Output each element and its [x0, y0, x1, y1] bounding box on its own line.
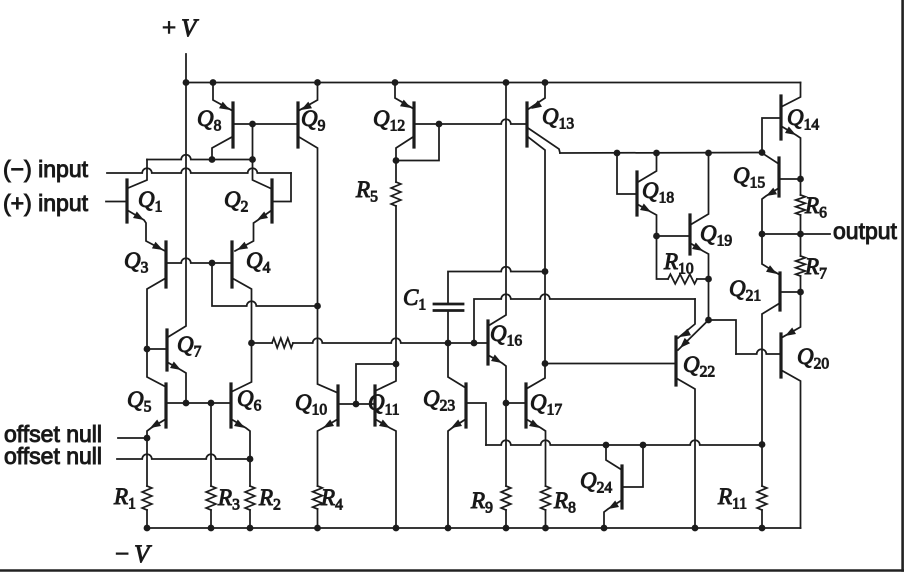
node -V rail junction at Q11 emitter: [393, 525, 400, 532]
node Q8 collector junction: [209, 156, 216, 163]
label Q5: [127, 387, 152, 416]
wire Q10 base to Q11 base: [338, 403, 375, 405]
label Q13: [542, 104, 574, 133]
wire Q8 base to Q9 base: [233, 123, 298, 125]
label R11: [717, 484, 747, 513]
node Q24 base junction: [640, 442, 647, 449]
node offset null lower junction: [247, 456, 254, 463]
wire Q21 emitter from output node: [762, 234, 780, 275]
transistor Q11: [373, 386, 376, 425]
wire Q20 collector to -V rail corner: [781, 370, 801, 528]
wire R5 bottom to Q11 collector node: [395, 206, 397, 364]
wire Q7 collector riser (+V to Q7): [168, 83, 186, 338]
wire Q1 collector riser: [128, 160, 147, 189]
node Q4/Q6 collector to second stage: [248, 340, 255, 347]
wire Q12 collector: [396, 137, 413, 161]
wire Q11 collector: [375, 364, 396, 391]
resistor R10: [668, 274, 709, 284]
transistor Q8: [231, 103, 234, 147]
wire Q14 base lead: [762, 118, 781, 153]
arrow Q6 emitter: [234, 420, 245, 429]
wire Q24 base tie: [622, 445, 643, 487]
wire Q4 collector down to Q6 collector: [231, 278, 252, 392]
node -V rail junction at R8: [542, 525, 549, 532]
transistor Q1: [125, 180, 128, 222]
transistor Q16: [486, 321, 489, 364]
transistor Q14: [779, 96, 782, 139]
wire Q2 emitter to Q4 emitter: [235, 210, 272, 251]
wire (+) input to Q1 base: [106, 201, 127, 203]
node Q7 emitter junction: [183, 400, 190, 407]
arrow Q18 emitter: [640, 204, 651, 213]
node Q21 base / R7 junction: [797, 289, 804, 296]
transistor Q10: [336, 386, 339, 425]
node Q14 base / Q15 collector junction: [759, 149, 766, 156]
transistor Q23: [464, 384, 467, 427]
wire Q1 emitter to Q3 emitter: [127, 210, 165, 251]
transistor Q6: [229, 384, 232, 427]
label Q6: [237, 386, 262, 415]
label Q3: [124, 248, 149, 277]
wire R5 top lead: [395, 161, 397, 183]
node Q3-Q4 base tap: [209, 260, 216, 267]
label R8: [553, 488, 576, 517]
capacitor C1 plates: [434, 304, 463, 311]
node Q7 base junction: [144, 346, 151, 353]
resistor R2: [245, 486, 255, 528]
wire Q21 base lead: [780, 291, 801, 293]
label Q24: [580, 468, 612, 497]
arrow Q19 emitter: [692, 243, 703, 252]
wire Q12 diode tie: [396, 124, 439, 161]
wire Q17 emitter lead: [526, 419, 546, 486]
node output / R6-R7 junction: [797, 231, 804, 238]
node -V rail junction at R4: [314, 525, 321, 532]
label Q9: [301, 106, 326, 135]
label R1: [113, 484, 136, 513]
transistor Q4: [230, 242, 233, 287]
node Q15 base / R6 junction: [797, 176, 804, 183]
label Q16: [490, 321, 522, 350]
arrow Q15 emitter (PNP, into bar): [766, 188, 777, 196]
node -V rail junction at R2: [247, 525, 254, 532]
wire Q19 emitter node down: [708, 279, 710, 320]
transistor Q13: [525, 103, 528, 146]
wire Q7 emitter to Q5-Q6 base line: [167, 362, 186, 403]
label R3: [217, 485, 240, 514]
svg-text:output: output: [833, 218, 898, 244]
arrow Q7 emitter: [170, 362, 181, 371]
wire output line: [762, 233, 830, 235]
wire Q24 emitter to -V rail: [604, 500, 622, 528]
wire Q18 collector: [638, 153, 657, 182]
wire Q16 base node to Q22 emitter 1: [474, 294, 695, 343]
label Q15: [733, 163, 765, 192]
label (+) input: [3, 190, 89, 216]
node output / Q15 emitter junction: [759, 231, 766, 238]
node riser junction on Q16 base line: [471, 340, 478, 347]
transistor Q17: [524, 384, 527, 427]
resistor R9: [501, 486, 511, 528]
node Q12 collector / R5 junction: [393, 157, 400, 164]
label Q20: [797, 344, 829, 373]
label Q4: [246, 248, 271, 277]
label Q8: [197, 106, 222, 135]
node Q9/Q10 collector with Q3-Q4 base line: [314, 303, 321, 310]
node R11 top junction: [759, 441, 766, 448]
wire R3 feed: [210, 403, 212, 486]
transistor Q3: [164, 242, 167, 287]
node Q22 emitter 2 / Q20 base junction: [705, 317, 712, 324]
node Q18 base feed junction: [614, 150, 621, 157]
wire Q5 emitter lead: [147, 419, 166, 486]
wire Q6 emitter lead: [231, 419, 250, 486]
label +V: [162, 15, 199, 42]
wire Q23 base to protection line: [466, 403, 486, 445]
node offset null upper junction: [144, 435, 151, 442]
label offset null (upper): [4, 421, 102, 447]
border right edge: [901, 0, 904, 571]
label output: [833, 218, 898, 244]
resistor R11: [757, 445, 767, 529]
wire top +V rail: [186, 82, 801, 84]
resistor R3: [206, 486, 216, 528]
wire Q15 base lead: [779, 178, 801, 180]
wire Q9 collector down to Q10 collector: [299, 137, 338, 393]
label Q22: [683, 352, 715, 381]
wire Q19 emitter lead: [690, 243, 709, 279]
svg-text:offset null: offset null: [4, 443, 102, 469]
node Q2 collector riser junction: [249, 156, 256, 163]
node Q8 emitter rail junction: [210, 79, 217, 86]
arrow Q1 emitter: [133, 212, 144, 221]
label offset null (lower): [4, 443, 102, 469]
wire Q22 collector to -V rail: [676, 378, 695, 528]
node Q18 emitter / Q19 base junction: [653, 233, 660, 240]
label (-) input: [3, 156, 89, 182]
arrow Q14 emitter: [785, 127, 796, 136]
node Q10-Q11 base tap: [353, 401, 360, 408]
node Q16 collector rail junction: [503, 79, 510, 86]
node Q19 collector junction: [705, 150, 712, 157]
node -V rail junction at R9: [503, 525, 510, 532]
capacitor C1 bottom lead: [447, 311, 449, 344]
wire Q3-Q4 base tap down to Q9/Q10 collectors: [212, 263, 318, 306]
arrow Q8 emitter (PNP, into bar): [219, 102, 230, 110]
wire Q13 collector B down to Q17 collector: [526, 137, 545, 389]
arrow Q17 emitter: [529, 420, 540, 429]
border bottom edge: [0, 569, 904, 572]
wire Q11 emitter to -V rail: [375, 419, 396, 528]
wire Q15 emitter lead: [762, 188, 779, 234]
arrow Q16 emitter: [491, 355, 502, 364]
wire Q19 collector: [690, 153, 709, 225]
arrow Q20 emitter (PNP, into bar): [785, 328, 796, 337]
node Q18 collector junction: [653, 150, 660, 157]
node -V rail junction at R11: [759, 525, 766, 532]
node Q11 collector / R5 junction: [393, 361, 400, 368]
label R6: [804, 193, 827, 222]
resistor R7: [796, 234, 806, 292]
node Q17 base junction: [503, 400, 510, 407]
arrow Q2 emitter: [257, 212, 268, 221]
capacitor C1 top lead: [448, 267, 545, 303]
wire Q21 collector down to R11: [762, 303, 780, 445]
node -V rail junction at R3: [208, 525, 215, 532]
resistor R5: [391, 182, 401, 206]
node C1 bottom junction: [445, 340, 452, 347]
node -V rail junction at R1: [144, 525, 151, 532]
arrow Q13 emitter (PNP, into bar): [531, 100, 542, 109]
wire Q5 base to Q6 base: [166, 402, 231, 404]
node R10 / Q19 emitter junction: [705, 276, 712, 283]
arrow Q23 collector lead: [451, 420, 462, 429]
label Q19: [700, 221, 732, 250]
node Q12 emitter rail junction: [392, 79, 399, 86]
label Q1: [138, 187, 162, 216]
svg-text:− V: − V: [115, 541, 152, 568]
transistor Q20: [779, 334, 782, 377]
node Q22 base line junction: [542, 360, 549, 367]
transistor Q19: [688, 215, 691, 254]
wire Q18 base feed: [617, 153, 637, 194]
label R4: [320, 485, 343, 514]
wire Q2 collector riser from Q8 node: [253, 124, 273, 189]
wire Q14 emitter lead: [781, 126, 801, 179]
label R10: [663, 249, 694, 278]
node Q24 collector junction: [603, 442, 610, 449]
wire Q10-Q11 base tie to Q11 collector: [356, 364, 396, 404]
svg-text:(+) input: (+) input: [3, 190, 89, 216]
power rail +V supply lead: [185, 54, 187, 83]
label Q21: [729, 276, 761, 305]
resistor R8: [541, 486, 551, 528]
label -V: [115, 541, 152, 568]
arrow Q5 emitter: [150, 420, 161, 429]
label R7: [804, 254, 827, 283]
wire Q3 base to Q4 base: [166, 258, 232, 263]
transistor Q21: [778, 273, 781, 310]
wire Q15 collector: [762, 153, 779, 164]
node Q12 base-collector tie: [436, 121, 443, 128]
wire Q8 emitter from +V rail: [213, 83, 233, 112]
arrow Q10 emitter: [323, 420, 334, 429]
wire Q13 emitter from +V rail: [527, 83, 545, 111]
wire Q20 emitter lead: [781, 292, 801, 338]
label R5: [355, 177, 378, 206]
arrow Q9 emitter (PNP, into bar): [301, 102, 312, 110]
node +V rail / Q7 collector riser junction: [183, 79, 190, 86]
wire Q23 collector to -V rail: [448, 419, 466, 528]
wire Q20 base path: [709, 320, 782, 354]
label Q17: [530, 390, 562, 419]
wire Q7 base from Q3 collector: [147, 348, 167, 350]
wire Q16 collector to +V rail: [488, 83, 506, 327]
node -V rail junction at Q24 emitter: [601, 525, 608, 532]
label Q11: [368, 390, 400, 419]
wire Q12 base to Q13 base: [414, 119, 527, 124]
wire Q23 emitter from Q16 base node: [448, 343, 466, 388]
svg-text:+ V: + V: [162, 15, 199, 42]
arrow Q21 emitter (PNP, into bar): [766, 265, 777, 274]
wire Q17 base from Q16 emitter: [506, 402, 526, 404]
node -V rail junction at Q22 collector: [692, 525, 699, 532]
arrow Q24 emitter: [608, 501, 619, 510]
wire Q19 base from Q18 emitter: [657, 235, 691, 237]
resistor R1: [142, 486, 152, 528]
label C1: [403, 285, 426, 314]
wire Q1-Q8 collector line: [147, 155, 253, 160]
transistor Q15: [777, 158, 780, 196]
node Q8/Q9 base tie to Q2 collector: [249, 121, 256, 128]
label Q18: [642, 178, 674, 207]
transistor Q9: [296, 103, 299, 147]
wire offset null lower to Q6 emitter: [117, 454, 250, 459]
transistor Q12: [412, 103, 415, 147]
label Q10: [295, 390, 327, 419]
arrow Q4 emitter (PNP, into bar): [237, 242, 248, 250]
arrow Q22 emitter 2 (PNP, into bar): [680, 338, 690, 348]
wire Q24 collector feed: [606, 445, 622, 470]
node Q13 emitter rail junction: [542, 79, 549, 86]
transistor Q7: [165, 330, 168, 370]
label Q14: [787, 105, 819, 134]
transistor Q5: [164, 384, 167, 427]
wire Q22 emitter 2 from Q19 emitter node: [678, 321, 708, 350]
arrow Q3 emitter (PNP, into bar): [152, 242, 163, 250]
wire R10 left leg: [657, 236, 669, 279]
node C1 top junction: [542, 268, 549, 275]
wire Q12 emitter from +V rail: [395, 83, 414, 110]
wire Q22 base line from Q17 collector: [545, 363, 676, 365]
node R3 tap junction: [208, 400, 215, 407]
wire Q14 collector from +V rail corner: [781, 83, 801, 108]
transistor Q2: [270, 180, 273, 222]
node Q9 emitter rail junction: [314, 79, 321, 86]
transistor Q22: [674, 337, 677, 385]
transistor Q24: [620, 466, 623, 508]
label Q12: [373, 106, 405, 135]
wire Q4-Q6 collector node to Q16 base with series resistor: [252, 338, 489, 348]
node -V rail junction at Q23 collector: [445, 525, 452, 532]
label Q2: [224, 187, 248, 216]
wire Q13 collector A to output stage: [528, 128, 560, 153]
label Q23: [423, 386, 455, 415]
wire offset null upper to Q5 emitter: [118, 437, 147, 439]
wire protection line to R11 top: [486, 440, 762, 445]
arrow Q12 emitter (PNP, into bar): [400, 100, 411, 108]
wire Q16 emitter to Q17 base feed: [488, 355, 506, 486]
resistor R4: [313, 486, 323, 528]
wire Q9 emitter from +V rail: [298, 83, 318, 112]
wire Q3 collector down to Q5 collector: [147, 278, 166, 387]
label Q7: [177, 332, 202, 361]
arrow Q22 emitter 1 (PNP, into bar): [680, 329, 691, 337]
wire Q13 collector A line to Q14 base: [560, 152, 762, 155]
wire Q10 emitter lead: [318, 419, 339, 486]
wire Q8 collector: [212, 137, 232, 160]
wire bottom -V rail: [146, 527, 801, 529]
svg-text:(−) input: (−) input: [3, 156, 89, 182]
label R2: [258, 485, 281, 514]
wire Q18 emitter to R10 node: [637, 204, 657, 236]
label R9: [470, 488, 493, 517]
arrow Q11 emitter: [379, 420, 390, 429]
resistor R6: [796, 179, 806, 234]
wire (-) input line to Q2 base: [107, 168, 291, 201]
transistor Q18: [635, 172, 638, 215]
